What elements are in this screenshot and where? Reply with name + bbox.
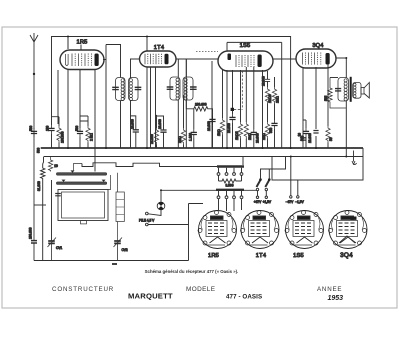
tube V1 1R5 bbox=[60, 50, 104, 70]
trimmer CV2 bbox=[114, 238, 128, 261]
svg-text:500: 500 bbox=[29, 125, 33, 131]
wire 3Q4 to output transformer bbox=[336, 58, 346, 78]
IF transformer T1 secondary bbox=[129, 78, 142, 101]
svg-text:500: 500 bbox=[37, 147, 41, 153]
wire 1R5 right to IFT1 bbox=[81, 45, 121, 78]
svg-text:100.000: 100.000 bbox=[61, 131, 65, 143]
resistor R 3500 bbox=[219, 175, 242, 187]
svg-text:10.000: 10.000 bbox=[207, 121, 211, 131]
resistor R 2M grid bbox=[178, 95, 186, 148]
svg-text:10.000: 10.000 bbox=[308, 133, 312, 143]
resistor R 31000 bbox=[34, 157, 46, 261]
IF transformer T2 primary bbox=[167, 77, 180, 100]
resistor R det load 1M3 bbox=[265, 87, 272, 122]
wire gang to oscillator bbox=[82, 163, 217, 167]
battery PILE 4,5V bbox=[139, 204, 203, 261]
tube socket 1R5 bbox=[198, 211, 237, 260]
pilot lamp bbox=[148, 190, 165, 215]
svg-text:1R5: 1R5 bbox=[76, 40, 87, 46]
svg-text:10: 10 bbox=[54, 164, 58, 168]
svg-text:PILE 4,5 V: PILE 4,5 V bbox=[139, 219, 155, 223]
wire LT line bbox=[161, 189, 257, 191]
capacitor C det bbox=[262, 71, 271, 87]
oscillator coil bbox=[116, 173, 124, 241]
svg-text:20.000: 20.000 bbox=[227, 123, 231, 133]
svg-text:1S5: 1S5 bbox=[293, 253, 304, 259]
output transformer core bbox=[350, 77, 352, 102]
svg-text:CV1: CV1 bbox=[56, 246, 62, 250]
tuning gang plate 1 bbox=[56, 164, 106, 176]
svg-text:2MΩ: 2MΩ bbox=[248, 133, 252, 140]
speaker HP bbox=[361, 83, 369, 99]
frame antenna coil bbox=[58, 190, 108, 224]
capacitor C 10000 bbox=[207, 116, 216, 131]
capacitor C 10 bbox=[297, 133, 306, 140]
svg-text:595: 595 bbox=[324, 95, 328, 101]
capacitor C 500 bbox=[75, 116, 88, 148]
svg-text:CV2: CV2 bbox=[122, 248, 128, 252]
tube socket 1T4 bbox=[241, 211, 280, 260]
wire 1T4 right to IFT2 bbox=[176, 59, 218, 77]
wire speaker return bbox=[345, 101, 347, 157]
svg-text:CONSTRUCTEUR: CONSTRUCTEUR bbox=[52, 286, 114, 293]
svg-text:2MΩ: 2MΩ bbox=[178, 136, 182, 143]
IF transformer T2 secondary bbox=[183, 77, 197, 100]
svg-text:100: 100 bbox=[46, 125, 50, 131]
svg-text:2 MΩ: 2 MΩ bbox=[90, 133, 94, 141]
svg-text:MARQUETT: MARQUETT bbox=[128, 292, 173, 301]
wire IFT1 sec to 1T4 bbox=[131, 59, 140, 78]
oscillator padder bar 2 bbox=[216, 189, 244, 191]
svg-text:1R5: 1R5 bbox=[208, 253, 219, 259]
resistor R af grid 1M bbox=[272, 77, 279, 120]
battery terminal -1,5V bbox=[295, 180, 304, 204]
svg-text:1S5: 1S5 bbox=[240, 43, 251, 49]
wire CV1 feed bbox=[51, 180, 53, 241]
resistor R 1M bbox=[217, 118, 225, 148]
svg-text:−67V: −67V bbox=[286, 200, 294, 204]
svg-text:10.000: 10.000 bbox=[130, 119, 134, 129]
wire under-bus long bbox=[44, 156, 363, 158]
tube socket 3Q4 bbox=[329, 211, 368, 260]
capacitor C 100 bbox=[46, 117, 60, 148]
svg-text:1T4: 1T4 bbox=[154, 45, 164, 51]
capacitor C 20000 bbox=[251, 129, 260, 148]
wire switch top bbox=[261, 169, 284, 180]
switch contacts row 2 bbox=[217, 191, 243, 211]
svg-text:1MΩ: 1MΩ bbox=[276, 96, 280, 103]
resistor R 10 bbox=[48, 157, 58, 172]
tube V2 1T4 bbox=[140, 51, 177, 67]
svg-text:50: 50 bbox=[329, 137, 333, 141]
svg-text:20.000: 20.000 bbox=[255, 133, 259, 143]
svg-text:1MΩ: 1MΩ bbox=[217, 129, 221, 136]
svg-text:477 - OASIS: 477 - OASIS bbox=[226, 294, 262, 301]
trimmer CV1 bbox=[48, 238, 63, 261]
output transformer secondary bbox=[353, 82, 361, 98]
svg-text:−1,5V: −1,5V bbox=[295, 200, 304, 204]
wire right loop bbox=[272, 148, 363, 180]
ground bus bbox=[41, 147, 363, 149]
svg-text:1.100: 1.100 bbox=[188, 133, 192, 141]
capacitor C 110 bbox=[188, 109, 197, 148]
capacitor C 500 af bbox=[269, 120, 278, 148]
svg-text:20.000: 20.000 bbox=[158, 119, 162, 129]
svg-text:ANNEE: ANNEE bbox=[317, 286, 342, 293]
wire IFT2 sec to 1S5 bbox=[185, 59, 187, 77]
oscillator padder bar 1 bbox=[217, 165, 244, 167]
svg-text:1T4: 1T4 bbox=[256, 253, 266, 259]
svg-text:1953: 1953 bbox=[328, 295, 344, 302]
wire HT line bbox=[281, 42, 283, 148]
capacitor C 500 out bbox=[301, 120, 310, 148]
capacitor C ave bbox=[227, 114, 236, 148]
antenna bbox=[30, 33, 38, 261]
wire top bus bbox=[52, 37, 291, 149]
capacitor C 10000 IF bbox=[130, 116, 139, 148]
tuning gang plate 2 bbox=[56, 175, 110, 190]
wire HT feed bbox=[283, 157, 286, 170]
resistor R 3Q4 grid bbox=[326, 126, 333, 148]
svg-text:+67V: +67V bbox=[254, 200, 262, 204]
switch S1 blade bbox=[254, 178, 262, 204]
capacitor C 500 antenna bbox=[29, 125, 37, 137]
svg-text:10.000: 10.000 bbox=[262, 76, 266, 86]
resistor R 2M bbox=[80, 121, 94, 148]
resistor R 2M av bbox=[244, 122, 252, 148]
resistor R 1M af bbox=[262, 122, 270, 148]
svg-text:500: 500 bbox=[269, 127, 273, 133]
tube V4 3Q4 bbox=[296, 49, 336, 68]
wire bar1 right riser bbox=[242, 157, 244, 166]
svg-text:1MΩ3: 1MΩ3 bbox=[268, 94, 272, 103]
capacitor frame coupling bbox=[55, 194, 61, 196]
wire 1S5 pins down bbox=[212, 61, 263, 148]
svg-text:+1,5V: +1,5V bbox=[263, 200, 272, 204]
svg-text:500: 500 bbox=[75, 125, 79, 131]
wire 1R5 anode down bbox=[105, 50, 107, 148]
IF transformer T1 primary bbox=[112, 78, 125, 101]
tube socket 1S5 bbox=[285, 211, 324, 260]
capacitor C 20000 IF bbox=[157, 116, 167, 148]
svg-text:31.000: 31.000 bbox=[37, 181, 41, 191]
trimmer pad CV2 bbox=[112, 263, 117, 265]
svg-text:MODELE: MODELE bbox=[186, 286, 215, 293]
battery terminal -67V bbox=[286, 157, 294, 204]
svg-text:Schéma général du récepteur 47: Schéma général du récepteur 477 (« Oasis… bbox=[145, 269, 239, 274]
wire 1R5 pins down bbox=[58, 37, 95, 172]
svg-text:3Q4: 3Q4 bbox=[340, 252, 353, 259]
svg-text:100.000: 100.000 bbox=[195, 103, 207, 107]
resistor R 1M5 bbox=[235, 122, 243, 148]
capacitor C grid out bbox=[308, 131, 319, 144]
resistor R 100000 horizontal bbox=[186, 103, 212, 148]
capacitor C padder bbox=[29, 227, 37, 243]
switch S2 blade bbox=[263, 178, 272, 204]
switch contacts row 1 bbox=[217, 168, 243, 176]
svg-text:100.000: 100.000 bbox=[29, 227, 33, 239]
wire 1S5 right to 3Q4 bbox=[273, 58, 296, 60]
resistor R 25000 bbox=[150, 115, 159, 148]
wire IFT bottoms to bus bbox=[121, 100, 187, 148]
resistor R 100000 bbox=[57, 121, 65, 148]
svg-text:10: 10 bbox=[297, 133, 301, 137]
wire 3Q4 pins down bbox=[303, 64, 328, 148]
wire tube top pins bbox=[68, 37, 282, 149]
jack output bbox=[352, 151, 357, 165]
ground return wire bbox=[34, 260, 189, 262]
wire 1T4 pins down bbox=[151, 67, 156, 148]
svg-text:3.500: 3.500 bbox=[226, 184, 234, 188]
svg-text:1MΩ5: 1MΩ5 bbox=[235, 131, 239, 140]
resistor R 595 bbox=[324, 78, 346, 109]
tube V3 1S5 bbox=[218, 51, 273, 71]
wire grid line bbox=[185, 59, 187, 109]
coupling corner bbox=[231, 71, 243, 111]
svg-text:3Q4: 3Q4 bbox=[312, 43, 323, 49]
svg-text:1MΩ: 1MΩ bbox=[262, 133, 266, 140]
output transformer primary bbox=[335, 78, 349, 102]
